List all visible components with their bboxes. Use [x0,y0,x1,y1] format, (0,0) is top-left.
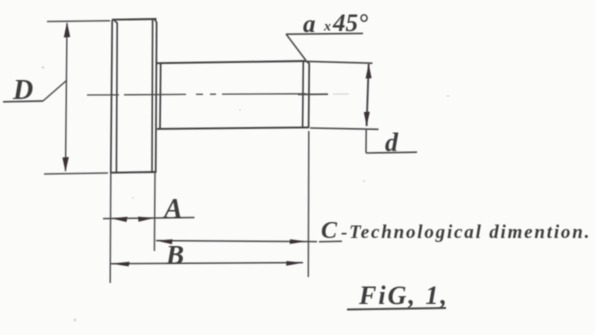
head outer-left line [111,20,112,173]
FIG 1 underline [347,308,446,310]
d dimension arrow down [364,112,370,127]
label d underline [366,151,417,154]
paper speckle [239,109,241,111]
paper speckle [42,66,44,68]
svg-text:A: A [162,194,183,225]
C dimension line [156,241,317,242]
head outer-right line [155,19,157,172]
extension line below shaft end [307,131,310,277]
d dimension bottom extension line [310,128,379,129]
D dimension top extension line [47,20,110,23]
head inner-right line [151,19,154,172]
D dimension arrow up [64,22,70,38]
B dimension arrow right [286,261,303,266]
label C underline [319,240,342,243]
shaft top edge [157,61,306,63]
D dimension bottom extension line [44,173,108,174]
a x45 underline [286,32,363,35]
head bottom edge [110,171,157,174]
left extension line below head [109,173,112,283]
d dimension line [367,64,369,126]
svg-text:-Technological dimention.: -Technological dimention. [341,222,591,243]
shaft left face [159,63,162,129]
centerline [87,94,349,95]
A dimension line [103,218,195,219]
paper speckle [132,197,134,199]
label D leader [43,81,67,102]
a x45 leader [286,34,306,61]
D dimension line [66,23,68,171]
C dimension arrow right [290,239,307,244]
shaft chamfer line [302,61,305,128]
right extension line below head [153,172,156,251]
A dimension arrow left [111,217,128,222]
B dimension arrow left [111,262,130,267]
label d underline vertical [365,130,367,153]
d dimension top extension line [304,61,373,63]
svg-text:B: B [165,240,184,270]
shaft bottom edge [157,127,309,128]
A dimension arrow right [138,217,154,222]
shaft end face [306,61,309,128]
d dimension arrow up [366,64,372,79]
svg-text:FiG, 1,: FiG, 1, [358,281,449,310]
C dimension arrow left [156,239,172,244]
label D underline [3,100,43,103]
paper speckle [74,319,76,321]
svg-text:x: x [323,20,331,35]
head inner-left line [114,20,118,172]
head top edge [112,18,157,21]
B dimension line [111,263,304,264]
svg-text:C: C [321,218,338,244]
D dimension arrow down [62,157,68,172]
paper speckle [363,180,365,182]
paper speckle [447,95,449,97]
